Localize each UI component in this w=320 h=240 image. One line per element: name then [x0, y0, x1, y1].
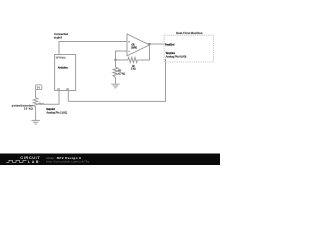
node junction at op-amp output — [148, 43, 150, 45]
svg-text:9 (PWM pin): 9 (PWM pin) — [56, 57, 66, 60]
op-amp OA2 LM741 — [127, 34, 150, 56]
wire R4 to output node — [137, 44, 149, 60]
svg-text:Analog Pin 1 (A1): Analog Pin 1 (A1) — [46, 111, 67, 115]
ground (potentiometer) — [31, 120, 39, 124]
svg-text:5V: 5V — [37, 86, 41, 90]
svg-text:1 kΩ: 1 kΩ — [131, 67, 136, 70]
svg-text:http://circuitlab.com/cvb76c: http://circuitlab.com/cvb76c — [46, 160, 90, 164]
annotation "Connected to pin 9" — [54, 32, 68, 39]
wire op-amp inverting input — [116, 51, 128, 60]
svg-text:Analog Pin 0 (A0): Analog Pin 0 (A0) — [166, 55, 187, 59]
potentiometer label — [12, 103, 34, 110]
svg-text:10 kΩ: 10 kΩ — [24, 106, 34, 110]
Heat Flow Machine dashed annotation box — [164, 35, 213, 62]
resistor R4 1k (feedback) — [128, 58, 138, 63]
potentiometer 10k — [33, 98, 38, 107]
wire 5V to potentiometer — [35, 90, 37, 98]
svg-text:Heat Flow Machine: Heat Flow Machine — [176, 31, 203, 35]
potentiometer wiper arrow — [40, 103, 44, 105]
ground (R6) — [111, 84, 119, 88]
node junction at R6/R4 — [114, 59, 116, 61]
footer bar — [0, 154, 220, 166]
svg-text:4.7 kΩ: 4.7 kΩ — [118, 73, 125, 76]
svg-text:HeatEnd: HeatEnd — [165, 42, 175, 46]
wire R6 to ground — [115, 78, 117, 84]
svg-text:LAB: LAB — [28, 160, 39, 164]
wire potentiometer to ground — [35, 107, 37, 121]
resistor R6 4.7k — [115, 60, 117, 67]
Arduino U1 box — [55, 55, 76, 91]
wire Arduino pin A1 stub down to wiper — [39, 90, 59, 104]
svg-text:Arduino: Arduino — [58, 65, 69, 69]
wire junction to R4 — [116, 59, 128, 61]
5V supply flag — [36, 85, 42, 90]
R4 label — [131, 65, 136, 71]
R6 label — [118, 70, 125, 76]
svg-text:to pin 9: to pin 9 — [54, 35, 62, 39]
svg-text:LM741: LM741 — [131, 46, 138, 49]
wire Arduino pin A0 stub down — [67, 90, 69, 101]
wire A0 to TempOne (long bottom run) — [68, 59, 165, 102]
wire op-amp output to HeatEnd — [150, 43, 167, 45]
wire from Arduino pin 9 to op-amp non-inverting input — [59, 42, 127, 55]
